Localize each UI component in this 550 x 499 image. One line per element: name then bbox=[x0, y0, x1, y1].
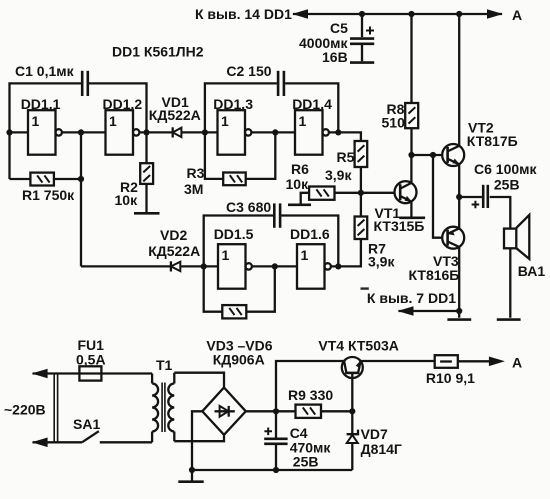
node DD1.1 output / R1 branch bbox=[78, 129, 84, 135]
svg-text:25В: 25В bbox=[494, 177, 520, 193]
node R1 right junction bbox=[78, 176, 84, 182]
svg-text:~220В: ~220В bbox=[4, 402, 46, 418]
resistor R1 750к bbox=[10, 173, 82, 203]
svg-text:0,5А: 0,5А bbox=[76, 352, 106, 368]
node C4 bottom / ground rail bbox=[273, 467, 279, 473]
svg-text:DD1.5: DD1.5 bbox=[214, 226, 254, 242]
node: rail / R8 junction bbox=[408, 11, 414, 17]
svg-text:3,9к: 3,9к bbox=[325, 167, 352, 183]
svg-text:25В: 25В bbox=[293, 454, 319, 470]
wire bridge plus to R9 bbox=[246, 410, 296, 412]
svg-text:К выв. 7 DD1: К выв. 7 DD1 bbox=[367, 290, 456, 306]
scan artifact dash bbox=[361, 287, 369, 289]
inverter DD1.2 bbox=[103, 96, 143, 155]
ground (VT1 emitter bar) bbox=[399, 217, 425, 220]
wire C1 loop left (DD1.1 input to C1) bbox=[10, 83, 82, 132]
inverter DD1.5 bbox=[214, 226, 254, 289]
node R5/R7/VT1 base junction bbox=[358, 190, 364, 196]
svg-text:SA1: SA1 bbox=[73, 416, 100, 432]
inverter DD1.6 bbox=[290, 226, 331, 289]
transistor VT1 КТ315Б bbox=[374, 155, 425, 234]
wire C2 loop left bbox=[205, 83, 277, 132]
node bridge plus / C4 / VT4 collector feed bbox=[273, 408, 279, 414]
resistor R8 510 bbox=[382, 14, 419, 155]
wire DD1.1 output to DD1.2 input bbox=[62, 131, 106, 133]
resistor R3 3М bbox=[184, 132, 275, 197]
wire DD1.4 output to R5 bbox=[329, 132, 361, 141]
resistor R4 (feedback, unlabeled) bbox=[204, 266, 275, 318]
bridge rectifier VD3-VD6 КД906А bbox=[202, 338, 272, 435]
svg-text:С3 680: С3 680 bbox=[226, 199, 271, 215]
transistor VT4 КТ503А bbox=[318, 338, 398, 412]
wire mains top bbox=[33, 372, 80, 374]
svg-text:1: 1 bbox=[32, 113, 40, 129]
wire DD1.2 output to VD1 bbox=[139, 131, 171, 133]
diode VD2 КД522А bbox=[81, 227, 218, 272]
svg-text:16В: 16В bbox=[322, 49, 348, 65]
wire bottom ground rail bbox=[192, 469, 352, 471]
capacitor C4 470мк 25В bbox=[264, 411, 331, 470]
transformer T1 core bbox=[162, 383, 165, 433]
ground (VT3 collector bar) bbox=[447, 318, 471, 321]
node: rail / VT2 collector junction bbox=[456, 11, 462, 17]
svg-text:1: 1 bbox=[221, 113, 229, 129]
wire DD1.1 input bbox=[10, 131, 29, 133]
svg-text:VD2: VD2 bbox=[160, 227, 187, 243]
fuse FU1 0,5А bbox=[76, 337, 152, 381]
svg-text:VD7: VD7 bbox=[361, 426, 388, 442]
node R8/VT1 collector bbox=[408, 152, 414, 158]
arrow to node A (right) bbox=[487, 9, 503, 19]
resistor R2 10к bbox=[115, 132, 154, 213]
svg-text:510: 510 bbox=[382, 115, 406, 131]
svg-text:3М: 3М bbox=[184, 181, 203, 197]
node DD1.2 output / C1 / R2 bbox=[143, 129, 149, 135]
resistor R6 10к bbox=[286, 161, 395, 204]
node DD1.1 input bbox=[6, 129, 12, 135]
svg-text:1: 1 bbox=[299, 113, 307, 129]
node output (VT2 e / VT3 e / C6) bbox=[456, 194, 462, 200]
svg-text:КТ315Б: КТ315Б bbox=[374, 218, 425, 234]
arrow to К выв. 14 DD1 (left) bbox=[292, 9, 308, 19]
wire C1 loop right (C1 to DD1.2 output node) bbox=[89, 83, 147, 132]
wire bridge minus to ground rail bbox=[192, 411, 202, 470]
node DD1.3 input bbox=[202, 129, 208, 135]
svg-text:КД522А: КД522А bbox=[148, 243, 200, 259]
node DD1.5 input bbox=[201, 263, 207, 269]
wire VT1 collector node to VT2 base bbox=[411, 154, 442, 156]
svg-text:Д814Г: Д814Г bbox=[361, 441, 402, 457]
resistor R10 9,1 bbox=[426, 355, 489, 386]
svg-text:1: 1 bbox=[222, 247, 230, 263]
node VT2 base / VT3 base branch bbox=[430, 152, 436, 158]
wire VT4 emitter to R10 bbox=[361, 360, 435, 362]
mains connector double line bbox=[54, 374, 57, 443]
svg-text:3,9к: 3,9к bbox=[368, 254, 395, 270]
wire left column down to R1 bbox=[8, 132, 10, 179]
ground (BA1 bar) bbox=[497, 318, 521, 321]
inverter DD1.4 bbox=[292, 96, 332, 155]
wire to К выв. 7 DD1 bbox=[399, 310, 460, 312]
svg-text:DD1.6: DD1.6 bbox=[290, 226, 330, 242]
svg-text:А: А bbox=[512, 355, 522, 371]
node: rail / C5 junction bbox=[359, 11, 365, 17]
resistor R7 3,9к bbox=[330, 193, 395, 270]
wire raw supply up to VT4 bbox=[276, 361, 344, 411]
capacitor C3 680 bbox=[226, 199, 280, 228]
transistor VT3 КТ816Б bbox=[409, 197, 465, 318]
wire secondary top to bridge bbox=[174, 373, 224, 387]
loudspeaker BA1 bbox=[504, 215, 545, 318]
svg-text:10к: 10к bbox=[115, 192, 139, 208]
svg-text:КТ816Б: КТ816Б bbox=[409, 267, 460, 283]
wire DD1.3 output to DD1.4 input bbox=[251, 131, 295, 133]
resistor R9 330 bbox=[288, 387, 352, 418]
ground (R6 bar) bbox=[288, 204, 311, 207]
svg-text:10к: 10к bbox=[286, 176, 310, 192]
zener VD7 Д814Г bbox=[347, 411, 402, 470]
svg-text:C1 0,1мк: C1 0,1мк bbox=[15, 63, 75, 79]
ground (C5 bottom bar) bbox=[350, 61, 374, 64]
wire C3 loop left bbox=[204, 216, 273, 267]
svg-text:DD1.2: DD1.2 bbox=[103, 96, 143, 112]
wire DD1.5 output to DD1.6 input bbox=[252, 265, 297, 267]
node DD1.5 output / R4 branch bbox=[272, 263, 278, 269]
ground (R2 bottom bar) bbox=[134, 212, 160, 215]
transformer T1 secondary bbox=[168, 373, 174, 442]
svg-text:ВА1: ВА1 bbox=[518, 263, 546, 279]
svg-text:R1 750к: R1 750к bbox=[22, 187, 75, 203]
svg-text:VT4 КТ503А: VT4 КТ503А bbox=[318, 338, 398, 354]
ground (main, below bridge) bbox=[178, 470, 203, 482]
capacitor C5 4000мк 16В bbox=[299, 14, 374, 65]
capacitor C2 150 bbox=[226, 63, 284, 96]
svg-text:DD1 К561ЛН2: DD1 К561ЛН2 bbox=[112, 44, 204, 60]
svg-text:R5: R5 bbox=[337, 149, 355, 165]
node DD1.6 output / C3 bbox=[335, 263, 341, 269]
node VT3 collector / pin7 branch bbox=[456, 308, 462, 314]
svg-text:DD1.1: DD1.1 bbox=[21, 96, 61, 112]
wire C2 loop right bbox=[285, 83, 338, 132]
switch SA1 bbox=[73, 416, 152, 442]
transformer T1 primary bbox=[152, 357, 172, 442]
svg-text:А: А bbox=[512, 7, 522, 23]
svg-text:С6 100мк: С6 100мк bbox=[474, 161, 538, 177]
svg-text:1: 1 bbox=[109, 113, 117, 129]
diode VD1 КД522А bbox=[149, 94, 218, 138]
svg-text:C2 150: C2 150 bbox=[226, 63, 271, 79]
svg-text:КД522А: КД522А bbox=[149, 107, 201, 123]
svg-text:С5: С5 bbox=[330, 20, 348, 36]
wire R1 branch column bbox=[80, 132, 82, 266]
arrow mains bottom bbox=[32, 438, 48, 448]
wire mains bottom bbox=[33, 441, 82, 443]
wire VT2 collector from rail bbox=[458, 14, 460, 146]
svg-text:R9 330: R9 330 bbox=[288, 387, 333, 403]
node R9 / VD7 / VT4 base bbox=[349, 408, 355, 414]
capacitor C1 0,1мк bbox=[15, 63, 88, 96]
svg-text:DD1.3: DD1.3 bbox=[213, 96, 253, 112]
transistor VT2 КТ817Б bbox=[442, 120, 517, 198]
svg-text:Т1: Т1 bbox=[156, 357, 173, 373]
svg-text:К выв. 14 DD1: К выв. 14 DD1 bbox=[195, 6, 292, 22]
svg-text:R6: R6 bbox=[291, 161, 309, 177]
wire secondary bottom to bridge bbox=[174, 435, 224, 441]
arrow to node A (supply output) bbox=[489, 357, 505, 367]
node ground rail left bbox=[189, 467, 195, 473]
node DD1.3 output / R3 branch bbox=[272, 129, 278, 135]
svg-text:1: 1 bbox=[301, 247, 309, 263]
capacitor C6 100мк 25В bbox=[459, 161, 537, 229]
svg-text:R10 9,1: R10 9,1 bbox=[426, 370, 475, 386]
svg-text:КД906А: КД906А bbox=[213, 352, 265, 368]
inverter DD1.3 bbox=[213, 96, 253, 155]
resistor R5 3,9к bbox=[325, 141, 367, 192]
svg-text:DD1.4: DD1.4 bbox=[292, 96, 332, 112]
wire top +9V rail bbox=[293, 13, 502, 15]
svg-text:R3: R3 bbox=[187, 165, 205, 181]
inverter DD1.1 (pin circle at output) bbox=[21, 96, 62, 155]
node DD1.4 output / C2 bbox=[335, 129, 341, 135]
svg-text:КТ817Б: КТ817Б bbox=[467, 133, 518, 149]
wire base column to VT3 bbox=[433, 155, 442, 238]
wire C3 loop right bbox=[281, 216, 338, 267]
arrow mains top bbox=[32, 369, 48, 379]
